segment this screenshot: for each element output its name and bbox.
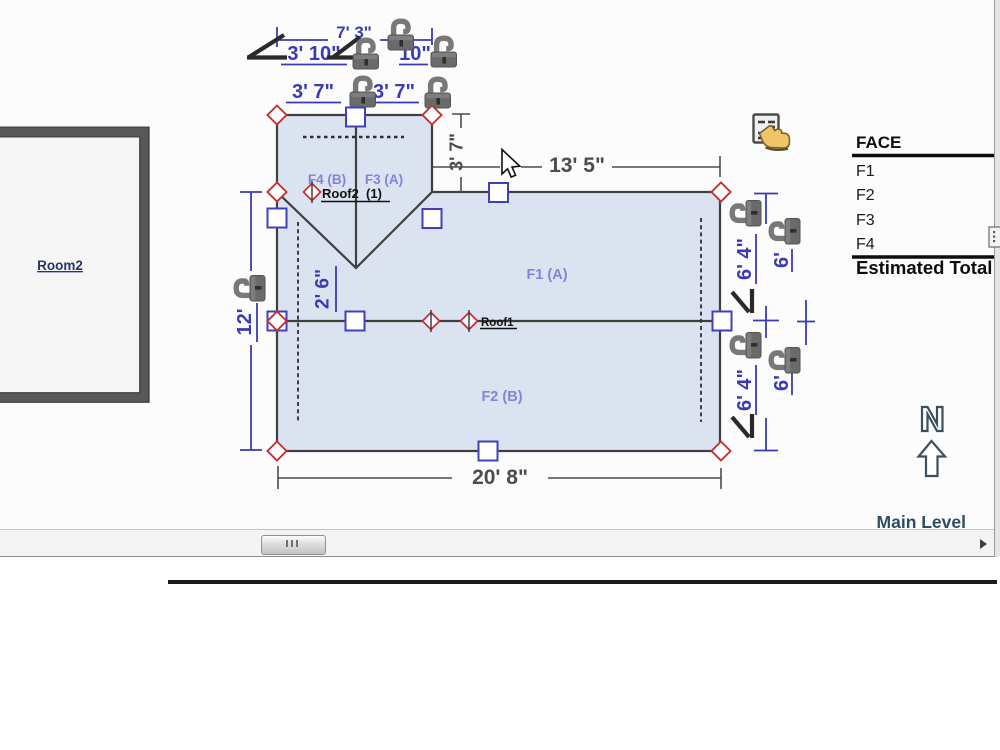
roof pentagon Roof2 [277, 115, 432, 268]
spreadsheet hand icon [754, 115, 790, 150]
svg-text:3' 10": 3' 10" [287, 43, 340, 65]
svg-text:6' 4": 6' 4" [734, 369, 756, 411]
svg-text:12': 12' [234, 308, 256, 335]
svg-text:3' 7": 3' 7" [446, 133, 466, 171]
dimension 20' 8" bottom [278, 466, 721, 489]
angle arrow right lower [732, 414, 752, 438]
lock right upper inner [732, 201, 761, 227]
dimension 13' 5" [433, 156, 720, 177]
svg-text:F2 (B): F2 (B) [481, 389, 522, 405]
blue square handle pentagon top [268, 108, 732, 461]
scrollbar right arrow [980, 539, 987, 549]
dimension 3' 7" vertical gray [452, 114, 470, 192]
angle arrow top left [247, 35, 287, 58]
svg-text:3' 7": 3' 7" [292, 81, 334, 103]
svg-text:F1: F1 [856, 163, 875, 180]
angle arrow right upper [732, 289, 752, 313]
lock top row1 [388, 21, 414, 50]
svg-text:F3 (A): F3 (A) [365, 172, 403, 187]
red diamond pentagon top-left [268, 106, 731, 461]
dashed line in pentagon [303, 136, 404, 139]
lock right lower inner [732, 333, 761, 359]
svg-text:F4: F4 [856, 236, 875, 253]
svg-text:13' 5": 13' 5" [549, 154, 605, 177]
mouse cursor [502, 150, 520, 178]
horizontal scrollbar [0, 529, 1000, 557]
svg-text:6': 6' [771, 252, 793, 268]
compass arrow [919, 441, 946, 476]
svg-text:2' 6": 2' 6" [313, 269, 334, 309]
right dimension line inner 6' 4" [753, 194, 779, 451]
splitter handle overlay [988, 226, 1000, 248]
lock row3 right [425, 79, 451, 108]
svg-text:20' 8": 20' 8" [472, 466, 528, 489]
lock 12' rotated [236, 276, 265, 302]
dimension 7' 3" top row [277, 27, 432, 47]
svg-text:FACE: FACE [856, 133, 901, 152]
red diamond small Roof2 [304, 184, 321, 201]
lock right lower outer [771, 348, 800, 374]
lock right upper outer [771, 219, 800, 245]
svg-text:Room2: Room2 [37, 258, 83, 273]
right outer dim line segment [797, 300, 815, 345]
lock row2 right [431, 38, 457, 67]
lock row3 left [350, 78, 376, 107]
svg-text:Estimated Total: Estimated Total [856, 257, 992, 278]
red diamond over left Roof1 square [268, 312, 287, 331]
svg-text:3' 7": 3' 7" [373, 81, 415, 103]
angle arrow top second [327, 37, 363, 58]
scrollbar thumb [261, 535, 326, 555]
roof ridge line Roof1 [277, 320, 720, 322]
svg-text:F3: F3 [856, 212, 875, 229]
dimension 12' left [240, 192, 262, 450]
room Room2 walls [0, 132, 145, 398]
svg-text:6' 4": 6' 4" [734, 238, 756, 280]
svg-text:F1 (A): F1 (A) [526, 267, 567, 283]
svg-text:Roof1: Roof1 [481, 317, 514, 329]
red diamond Roof1 a [423, 313, 440, 330]
dashed vertical line left [297, 222, 299, 422]
dark separator line lower area [168, 580, 997, 584]
dashed vertical line right [700, 218, 702, 422]
right edge sliver [994, 0, 1000, 557]
compass letter N [922, 407, 943, 431]
red diamond Roof1 b [461, 313, 478, 330]
lock row2 left [353, 40, 379, 69]
ridge line pentagon [355, 115, 357, 268]
roof main rectangle faces F1/F2 [277, 192, 720, 451]
splitter handle right edge [991, 228, 1000, 247]
svg-text:F2: F2 [856, 187, 875, 204]
svg-text:Roof2 (1): Roof2 (1) [322, 186, 382, 201]
svg-text:6': 6' [771, 375, 793, 391]
